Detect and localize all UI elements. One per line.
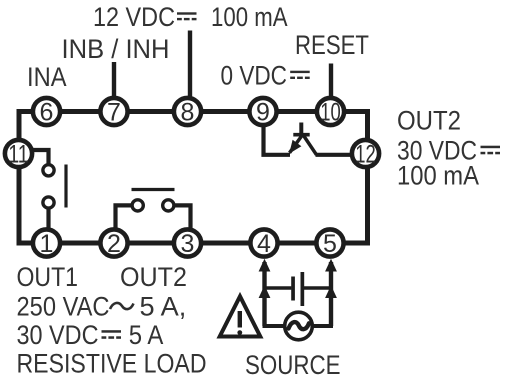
wire: source loop right vertical — [329, 262, 333, 326]
AC source symbol — [285, 312, 313, 340]
svg-text:3: 3 — [181, 230, 195, 258]
wire: terminal 2 up to left contact — [116, 205, 132, 229]
wire: INB/INH stub to terminal 7 — [112, 62, 116, 97]
AC tilde symbol after 250 VAC — [110, 303, 134, 309]
terminal 7 — [100, 98, 127, 127]
warning triangle — [220, 296, 261, 336]
wire: RESET stub to terminal 10 — [329, 64, 333, 98]
arrow into terminal 4 — [259, 259, 271, 272]
wire: lower contact to terminal 1 — [46, 209, 50, 230]
DC symbol after 30 VDC (bottom) — [102, 330, 122, 339]
contact circle left (OUT2 contact) — [132, 200, 143, 211]
svg-text:2: 2 — [107, 230, 121, 258]
wire: terminal 11 to upper contact — [31, 150, 49, 164]
terminal 4 — [250, 229, 277, 258]
terminal 2 — [100, 229, 127, 258]
wire: right contact to terminal 3 — [175, 205, 191, 229]
terminal 12 — [352, 140, 379, 169]
terminal 8 — [174, 98, 201, 127]
svg-text:30 VDC: 30 VDC — [17, 320, 99, 350]
svg-text:100 mA: 100 mA — [211, 2, 288, 32]
wire: 12 VDC stub to terminal 8 — [188, 31, 192, 98]
svg-text:5: 5 — [323, 230, 337, 258]
terminal 9 — [249, 98, 276, 127]
terminal 10 — [317, 98, 344, 127]
wire: capacitor right lead — [304, 286, 331, 289]
terminal 3 — [174, 229, 201, 258]
arrow into terminal 5 — [325, 259, 337, 272]
transistor Q1 base lead — [299, 123, 303, 135]
terminal 11 — [5, 140, 32, 169]
svg-text:8: 8 — [181, 99, 195, 127]
terminal 1 — [33, 229, 60, 258]
svg-text:11: 11 — [8, 141, 29, 169]
svg-text:250 VAC: 250 VAC — [17, 292, 110, 322]
transistor Q1 emitter arrow — [289, 140, 301, 154]
svg-text:5 A: 5 A — [129, 320, 164, 350]
svg-text:RESISTIVE LOAD: RESISTIVE LOAD — [17, 349, 207, 379]
arrow on right line at capacitor junction — [325, 285, 337, 298]
svg-text:100 mA: 100 mA — [397, 161, 479, 191]
warning triangle exclamation bar — [238, 311, 242, 328]
svg-text:12: 12 — [355, 141, 376, 169]
transistor Q1 collector line — [304, 136, 317, 155]
contact circle upper (OUT1 contact) — [43, 165, 54, 176]
svg-text:12 VDC: 12 VDC — [93, 2, 175, 32]
contact bar OUT1 (vertical) — [64, 165, 67, 208]
svg-text:4: 4 — [257, 230, 271, 258]
svg-text:9: 9 — [256, 99, 270, 127]
wire: source loop bottom left — [263, 324, 286, 328]
svg-text:INA: INA — [27, 62, 67, 92]
transistor Q1 base bar — [293, 133, 309, 137]
capacitor right plate — [301, 272, 305, 306]
terminal 5 — [316, 229, 343, 258]
svg-text:5 A,: 5 A, — [140, 292, 187, 322]
contact bar OUT2 (horizontal) — [132, 188, 175, 191]
contact circle lower (OUT1 contact) — [43, 197, 54, 208]
svg-text:INB / INH: INB / INH — [62, 34, 170, 64]
AC source tilde — [289, 322, 310, 329]
wire: terminal 9 down to transistor emitter — [264, 124, 291, 155]
warning triangle exclamation dot — [237, 330, 242, 335]
wire: source loop left vertical — [262, 262, 266, 326]
svg-text:1: 1 — [40, 230, 54, 258]
svg-text:6: 6 — [40, 99, 54, 127]
svg-text:OUT2: OUT2 — [397, 106, 461, 136]
svg-text:7: 7 — [107, 99, 121, 127]
wire: capacitor left lead — [265, 286, 292, 289]
arrow on left line at capacitor junction — [259, 285, 271, 298]
capacitor left plate — [291, 277, 295, 301]
svg-text:RESET: RESET — [295, 30, 369, 60]
transistor Q1 emitter line — [290, 136, 303, 153]
svg-text:OUT2: OUT2 — [120, 262, 187, 292]
svg-text:10: 10 — [320, 99, 341, 127]
svg-text:0 VDC: 0 VDC — [221, 61, 288, 91]
DC symbol after 0 VDC — [290, 71, 310, 79]
DC symbol after 12 VDC — [177, 12, 197, 20]
terminal 6 — [33, 98, 60, 127]
svg-text:OUT1: OUT1 — [17, 262, 79, 292]
wire: source loop bottom right — [312, 324, 333, 328]
svg-text:SOURCE: SOURCE — [245, 350, 341, 380]
wire: terminal box outline — [19, 112, 368, 244]
wire: transistor collector to terminal 12 — [316, 153, 353, 157]
DC symbol after 30 VDC (right) — [481, 146, 501, 155]
contact circle right (OUT2 contact) — [163, 200, 174, 211]
